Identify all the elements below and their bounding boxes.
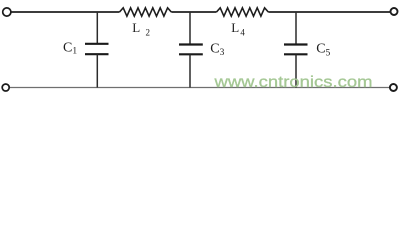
svg-text:L2: L2 [132, 20, 150, 37]
wire top rail segment 1 [11, 11, 120, 13]
inductor L4 (zigzag) [217, 8, 269, 16]
capacitor C3 [179, 12, 203, 88]
svg-text:www.cntronics.com: www.cntronics.com [213, 74, 372, 91]
terminal top-left [3, 8, 11, 16]
wire bottom rail [10, 87, 390, 89]
svg-text:L4: L4 [231, 20, 245, 37]
capacitor C1 [85, 12, 109, 88]
inductor L2 (zigzag) [120, 8, 172, 16]
svg-text:C5: C5 [316, 42, 330, 59]
svg-text:C1: C1 [63, 41, 77, 57]
wire top rail segment 3 [268, 11, 390, 13]
wire top rail segment 2 [171, 11, 216, 13]
svg-text:C3: C3 [210, 41, 224, 58]
terminal bottom-left [2, 84, 9, 91]
terminal top-right [391, 8, 398, 15]
terminal bottom-right [390, 84, 397, 91]
capacitor C5 [284, 12, 308, 88]
